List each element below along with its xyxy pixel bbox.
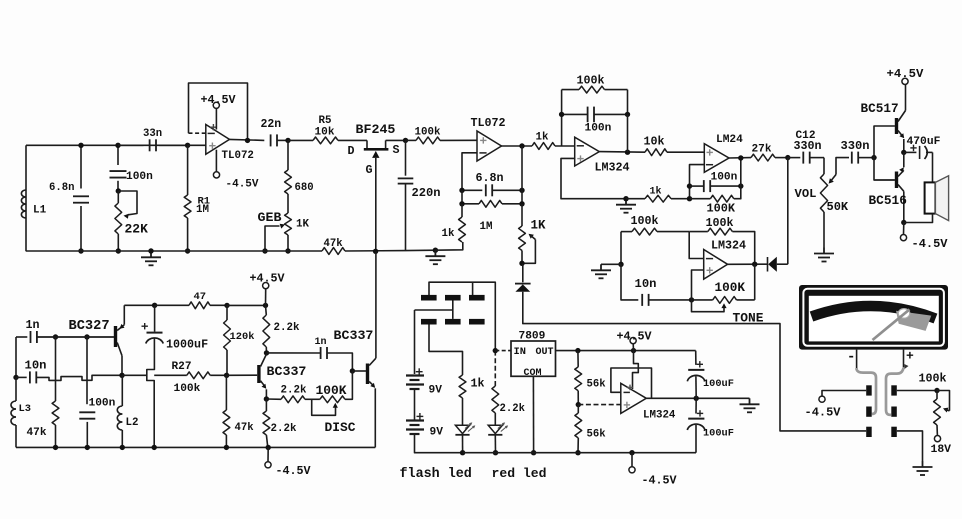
ground virtual xyxy=(740,398,760,412)
svg-text:TL072: TL072 xyxy=(222,150,254,162)
svg-text:100k: 100k xyxy=(174,383,201,395)
1000uF plus mark xyxy=(142,323,148,329)
U1 plus input marks xyxy=(209,143,215,149)
wire base BC337-1 xyxy=(227,374,258,376)
capacitor 100n feedback U4 xyxy=(690,185,704,187)
svg-text:L3: L3 xyxy=(19,403,31,415)
capacitor 6.8n feedback xyxy=(462,189,482,191)
switch contact left row2 xyxy=(866,407,872,417)
resistor 1k flash xyxy=(459,375,466,398)
resistor 56k upper xyxy=(577,351,579,367)
resistor 680 xyxy=(287,140,289,170)
wire tone left vertical xyxy=(621,264,638,300)
wire base box BC517/BC516 xyxy=(874,126,895,180)
junction xyxy=(403,138,408,143)
resistor R1 1M xyxy=(187,145,189,195)
svg-text:100k: 100k xyxy=(415,127,441,139)
op-amp U3 LM324 xyxy=(575,137,600,166)
capacitor 10n series xyxy=(16,376,27,378)
ground xyxy=(913,461,933,475)
terminal 18V xyxy=(936,425,938,436)
wire between batteries xyxy=(414,389,416,421)
svg-text:47k: 47k xyxy=(235,422,255,434)
junction xyxy=(519,201,524,206)
ground xyxy=(814,248,834,262)
wire osc bottom rail xyxy=(16,446,375,448)
svg-text:6.8n: 6.8n xyxy=(476,171,504,185)
svg-text:LM324: LM324 xyxy=(711,239,746,253)
wire tone minus leg xyxy=(689,232,704,259)
wire to 1k U2 ground leg xyxy=(435,242,462,250)
switch contact left row3 xyxy=(866,427,872,437)
svg-text:G: G xyxy=(366,163,373,177)
junction xyxy=(618,262,623,267)
junction U2 out xyxy=(519,143,524,148)
svg-text:+4.5V: +4.5V xyxy=(250,272,285,286)
wire L1 bottom corner to ground rail xyxy=(25,250,27,252)
svg-text:22K: 22K xyxy=(125,222,149,237)
junction xyxy=(115,143,120,148)
wire coil top xyxy=(429,282,495,350)
svg-text:100n: 100n xyxy=(585,123,612,135)
terminal +4.5V U1 xyxy=(215,108,217,129)
svg-text:330n: 330n xyxy=(841,139,870,153)
resistor 47k mid xyxy=(225,375,227,410)
junction xyxy=(625,112,630,117)
LED flash xyxy=(455,425,469,433)
svg-text:10n: 10n xyxy=(635,277,657,291)
svg-text:R27: R27 xyxy=(172,361,192,373)
svg-text:+4.5V: +4.5V xyxy=(617,330,652,344)
svg-text:2.2k: 2.2k xyxy=(271,423,297,435)
wire OUT to +4.5V rail xyxy=(556,350,696,352)
wire switch row3 right to ground xyxy=(897,431,923,461)
ground xyxy=(425,250,445,264)
470uF plus mark xyxy=(910,145,916,151)
svg-text:100k: 100k xyxy=(631,214,659,228)
svg-text:10k: 10k xyxy=(644,135,665,149)
op-amp U6 LM324 xyxy=(621,383,647,413)
LED red xyxy=(488,425,502,433)
potentiometer 100K DISC xyxy=(320,396,345,403)
svg-text:100n: 100n xyxy=(711,172,738,184)
junction 220n/1k ground node xyxy=(433,248,438,253)
rheostat 100k meter xyxy=(934,399,941,425)
junction xyxy=(78,143,83,148)
wire ground rail top-left xyxy=(26,250,322,252)
terminal -4.5V U1 xyxy=(215,150,217,172)
inductor L3 xyxy=(15,377,17,401)
connector bar 2 xyxy=(445,295,461,301)
junction xyxy=(85,445,90,450)
junction xyxy=(116,248,121,253)
terminal -4.5V right xyxy=(903,223,905,235)
junction 22n/680 node xyxy=(285,138,290,143)
svg-text:GEB: GEB xyxy=(258,210,282,225)
resistor 100K feedback U4 xyxy=(710,195,733,202)
capacitor 100uF upper xyxy=(695,351,697,365)
wire feedback box U6 xyxy=(611,368,652,398)
svg-text:100k: 100k xyxy=(577,74,605,88)
resistor 47k osc xyxy=(55,337,57,401)
switch contact right row1 xyxy=(891,385,897,395)
wire bottom power rail xyxy=(463,452,696,454)
wire ground rail to ground2 xyxy=(345,249,435,252)
svg-text:L1: L1 xyxy=(33,205,47,217)
junction U5 out xyxy=(752,262,757,267)
svg-text:100n: 100n xyxy=(89,398,116,410)
op-amp U1 TL072 xyxy=(206,125,230,155)
capacitor 330n coupling xyxy=(852,152,858,164)
resistor 100k tone right xyxy=(708,228,733,235)
meter scale arc xyxy=(812,306,936,319)
resistor 120k xyxy=(226,305,228,320)
wire L1 left vertical xyxy=(25,145,27,251)
junction xyxy=(575,450,580,455)
wire battery to rail xyxy=(415,434,463,453)
wire 1000uF bottom with hop jog xyxy=(147,339,155,448)
junction xyxy=(631,348,636,353)
diode flash line xyxy=(522,263,524,282)
resistor 2.2k red led xyxy=(494,351,496,386)
U5 plus input wire xyxy=(692,270,704,300)
transistor BC517 xyxy=(895,118,898,134)
inductor L2 xyxy=(121,375,123,406)
transistor BC337 first xyxy=(257,365,260,383)
junction base 2 xyxy=(350,368,355,373)
svg-text:-4.5V: -4.5V xyxy=(642,474,677,488)
battery 9V first xyxy=(406,374,424,376)
junction xyxy=(78,248,83,253)
svg-text:1k: 1k xyxy=(442,228,455,240)
svg-text:220n: 220n xyxy=(412,186,441,200)
junction xyxy=(575,348,580,353)
svg-text:1K: 1K xyxy=(296,219,309,231)
wire bar4 to flash led xyxy=(429,325,463,376)
DISC wiper xyxy=(312,399,336,415)
connector bar 1 xyxy=(421,295,437,301)
svg-text:BC337: BC337 xyxy=(334,328,374,343)
U4 minus input wire xyxy=(690,165,705,199)
meter terminal minus xyxy=(856,350,858,369)
wire feedback right side xyxy=(627,90,629,115)
resistor 47 supply xyxy=(189,302,210,309)
svg-text:BC517: BC517 xyxy=(861,101,899,116)
meter needle xyxy=(898,309,910,319)
svg-text:2.2k: 2.2k xyxy=(281,385,307,397)
svg-text:R5: R5 xyxy=(319,115,332,127)
junction U1 output xyxy=(245,138,250,143)
wire bar2 to battery xyxy=(452,301,454,319)
op-amp U2 TL072 xyxy=(477,131,502,161)
svg-text:1K: 1K xyxy=(531,219,547,233)
U3 output wire xyxy=(599,151,645,154)
junction xyxy=(459,188,464,193)
svg-text:1n: 1n xyxy=(26,318,40,332)
svg-text:330n: 330n xyxy=(794,139,822,153)
svg-text:+: + xyxy=(906,349,914,364)
wire COM down xyxy=(532,376,534,452)
svg-text:D: D xyxy=(348,144,355,158)
junction xyxy=(285,248,290,253)
svg-text:470uF: 470uF xyxy=(907,136,941,148)
ground xyxy=(616,199,636,213)
U1 output wire xyxy=(230,139,265,140)
capacitor 1n left xyxy=(16,336,27,338)
wire diode to 27k junction xyxy=(787,158,789,265)
resistor 47k (gate) xyxy=(322,248,345,255)
svg-text:flash led: flash led xyxy=(400,467,472,482)
meter gray wire right xyxy=(886,368,904,415)
junction xyxy=(519,261,524,266)
100k wiper xyxy=(937,391,950,411)
wire gate vertical xyxy=(375,158,377,251)
svg-text:27k: 27k xyxy=(752,144,772,156)
svg-text:100k: 100k xyxy=(706,216,734,230)
GEB wiper xyxy=(265,226,280,251)
junction xyxy=(119,373,124,378)
capacitor 1000uF xyxy=(154,305,156,331)
svg-text:2.2k: 2.2k xyxy=(274,322,300,334)
100K tone wiper xyxy=(692,300,725,312)
switch contact right row2 xyxy=(891,407,897,417)
svg-text:OUT: OUT xyxy=(536,347,554,358)
svg-text:IN: IN xyxy=(514,346,526,358)
resistor 1k to ground xyxy=(459,217,466,242)
U1 wire plus input xyxy=(188,144,206,146)
resistor 10k to LM24 xyxy=(645,149,667,156)
svg-text:BC516: BC516 xyxy=(869,193,907,208)
capacitor C12 330n xyxy=(788,157,801,159)
wire coil stub 3 xyxy=(472,282,474,295)
potentiometer 1K (audio) xyxy=(519,226,526,251)
junction op-amp input node xyxy=(185,143,190,148)
junction emitters xyxy=(901,150,906,155)
svg-text:56k: 56k xyxy=(587,379,607,391)
svg-text:7809: 7809 xyxy=(519,331,546,343)
resistor 2.2k emitter xyxy=(265,399,267,411)
U1 minus input wire xyxy=(189,132,206,134)
U1 supply plus mark xyxy=(210,124,216,130)
junction xyxy=(689,297,694,302)
wire U3 out to feedback xyxy=(627,114,629,152)
svg-text:47k: 47k xyxy=(324,238,344,250)
junction node above 22K xyxy=(116,188,121,193)
junction base node xyxy=(871,155,876,160)
wire U2 out vertical to 1K pot xyxy=(521,146,523,190)
capacitor 100n osc xyxy=(86,337,88,404)
svg-text:COM: COM xyxy=(524,368,542,379)
capacitor 100uF lower xyxy=(695,398,697,413)
transistor BC327 xyxy=(114,326,117,347)
potentiometer 100K tone xyxy=(713,297,737,304)
resistor 100k tone left xyxy=(620,232,622,265)
junction emitter node xyxy=(264,396,269,401)
svg-text:100uF: 100uF xyxy=(703,428,734,440)
svg-text:100k: 100k xyxy=(919,372,947,386)
capacitor 10n tone xyxy=(642,294,648,306)
potentiometer VOL 50K xyxy=(823,158,825,174)
svg-text:2.2k: 2.2k xyxy=(500,403,526,415)
svg-text:1M: 1M xyxy=(196,204,209,216)
resistor R5 10k xyxy=(288,139,313,141)
terminal +4.5V osc xyxy=(265,289,267,306)
connector bar 3 xyxy=(469,295,485,301)
wire top rail L1 section xyxy=(26,144,188,146)
svg-text:LM324: LM324 xyxy=(595,161,630,175)
connector bar 4 xyxy=(421,319,437,325)
battery 9V second xyxy=(406,419,424,421)
svg-text:-: - xyxy=(847,350,855,366)
svg-text:red led: red led xyxy=(492,466,547,481)
svg-text:10n: 10n xyxy=(25,359,47,373)
meter body xyxy=(799,285,948,350)
terminal -4.5V main xyxy=(631,453,633,467)
1K pot wiper xyxy=(522,240,535,264)
connector bar 6 xyxy=(469,319,485,325)
resistor 1k LM24 ground leg xyxy=(645,195,671,202)
junction xyxy=(576,402,581,407)
resistor 2.2k collector xyxy=(265,305,268,315)
svg-text:1k: 1k xyxy=(471,377,485,391)
svg-text:50K: 50K xyxy=(827,200,849,214)
junction 7809 IN xyxy=(493,348,498,353)
svg-text:47: 47 xyxy=(194,291,207,303)
capacitor 6.8n (tank) xyxy=(80,145,82,188)
junction xyxy=(694,396,699,401)
VOL wiper xyxy=(836,158,849,175)
svg-text:1M: 1M xyxy=(480,221,493,233)
meter gray wire left xyxy=(857,368,876,414)
ground xyxy=(141,251,161,265)
junction xyxy=(152,445,157,450)
svg-text:9V: 9V xyxy=(430,427,444,439)
resistor 27k xyxy=(751,154,775,161)
U3 plus input to ground xyxy=(561,158,626,198)
inductor L1 xyxy=(21,190,26,197)
U5 output wire xyxy=(728,263,767,265)
transistor BF245 JFET xyxy=(338,139,367,141)
connector bar 5 xyxy=(445,319,461,325)
wire speaker bottom xyxy=(904,214,933,223)
wire emitter rail to 47 resistor xyxy=(124,304,154,306)
resistor R27 100k xyxy=(187,372,210,379)
junction xyxy=(623,196,628,201)
U2 minus feedback wire xyxy=(462,153,477,191)
svg-text:+4.5V: +4.5V xyxy=(887,67,925,81)
svg-text:DISC: DISC xyxy=(325,420,356,435)
svg-text:1k: 1k xyxy=(650,186,662,198)
junction U4 out xyxy=(738,155,743,160)
resistor 1M feedback xyxy=(461,190,463,204)
svg-text:100n: 100n xyxy=(126,171,153,183)
capacitor 22n xyxy=(271,134,277,146)
junction xyxy=(120,445,125,450)
svg-text:100K: 100K xyxy=(715,280,746,295)
wire R27 rail with hops xyxy=(36,375,122,380)
terminal +4.5V top right xyxy=(902,78,908,84)
svg-text:100K: 100K xyxy=(707,202,736,216)
junction xyxy=(266,445,271,450)
junction xyxy=(738,183,743,188)
svg-text:18V: 18V xyxy=(931,444,952,456)
svg-text:+4.5V: +4.5V xyxy=(201,93,236,107)
capacitor 33n xyxy=(118,144,144,146)
svg-text:56k: 56k xyxy=(587,429,607,441)
terminal -4.5V osc xyxy=(267,448,269,462)
junction xyxy=(224,303,229,308)
svg-text:BF245: BF245 xyxy=(356,122,396,137)
junction xyxy=(185,248,190,253)
junction xyxy=(263,303,268,308)
svg-text:-4.5V: -4.5V xyxy=(805,406,842,420)
junction xyxy=(53,334,58,339)
transistor BC516 xyxy=(895,172,898,189)
capacitor 100n feedback U3 xyxy=(562,113,588,115)
svg-text:L2: L2 xyxy=(126,417,139,429)
junction xyxy=(519,188,524,193)
junction xyxy=(687,183,692,188)
wire battery column xyxy=(414,310,416,374)
svg-text:47k: 47k xyxy=(27,427,47,439)
svg-text:9V: 9V xyxy=(429,385,443,397)
U6 output wire xyxy=(646,397,749,399)
svg-text:-4.5V: -4.5V xyxy=(226,179,259,191)
wire flash diode to switch xyxy=(523,292,866,431)
junction xyxy=(687,196,692,201)
junction U3 out xyxy=(625,150,630,155)
junction xyxy=(901,220,906,225)
resistor 56k lower xyxy=(577,405,579,413)
meter gray sector xyxy=(896,311,931,331)
capacitor 100n (22K branch) xyxy=(117,145,119,165)
wire left column L3 xyxy=(15,337,17,377)
junction xyxy=(460,450,465,455)
svg-text:22n: 22n xyxy=(261,118,282,131)
junction xyxy=(785,155,790,160)
capacitor 470uF xyxy=(904,151,917,153)
ground stub tone xyxy=(601,263,621,265)
junction xyxy=(84,334,89,339)
potentiometer GEB 1K xyxy=(285,213,292,235)
terminal -4.5V switch xyxy=(822,391,866,397)
regulator 7809 box xyxy=(511,341,556,376)
svg-text:VOL: VOL xyxy=(795,187,817,201)
resistor 2.2k DISC xyxy=(281,396,305,403)
junction xyxy=(559,112,564,117)
U6 plus input wire xyxy=(578,404,621,406)
terminal +4.5V main xyxy=(632,344,634,351)
svg-text:1000uF: 1000uF xyxy=(166,338,208,352)
junction xyxy=(934,388,939,393)
junction xyxy=(262,248,267,253)
resistor 100k feedback U3 xyxy=(562,89,579,91)
svg-text:LM24: LM24 xyxy=(716,134,743,146)
svg-text:1n: 1n xyxy=(315,337,327,348)
switch contact right row3 xyxy=(891,427,897,437)
svg-text:33n: 33n xyxy=(143,128,162,140)
svg-text:S: S xyxy=(393,143,400,157)
diode to volume line xyxy=(767,257,769,272)
capacitor 220n xyxy=(405,140,407,175)
junction xyxy=(224,445,229,450)
svg-text:1k: 1k xyxy=(536,132,549,144)
svg-text:BC327: BC327 xyxy=(69,319,110,334)
svg-text:-4.5V: -4.5V xyxy=(912,237,949,251)
junction xyxy=(629,450,634,455)
U4 output wire xyxy=(729,157,751,159)
svg-text:-4.5V: -4.5V xyxy=(276,464,311,478)
